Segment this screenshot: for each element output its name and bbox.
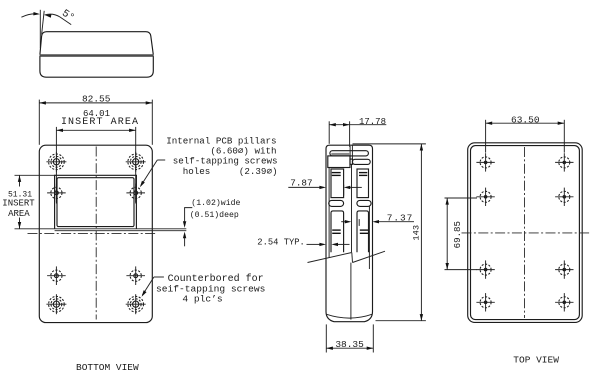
groove bottom line [55,230,187,232]
right inner wall line [368,206,370,270]
svg-text:82.55: 82.55 [82,93,111,104]
svg-text:INSERT AREA: INSERT AREA [61,117,139,128]
vertical centerline [95,147,97,320]
screw hole counterbored top-left [46,152,66,172]
dimension 82.55 line [39,102,152,104]
seam middle line [351,164,353,252]
dimension 51.31 line lower [19,218,21,229]
screw hole counterbored bottom-right [126,294,146,314]
row1 stadium right [357,200,371,206]
dimension 64.01 extension right [135,127,137,204]
seam lower line [350,263,352,320]
draft vertical reference line [39,10,41,48]
pillar row2 right [357,211,369,252]
svg-text:7.37: 7.37 [387,213,413,224]
lid slot stadium [330,151,369,156]
pillar row2 right bars [360,229,369,231]
dimension 64.01 line [56,129,135,131]
top view horizontal centerline [462,232,591,234]
leader to counterbored hole [154,276,164,278]
dimension 64.01 extension left [55,127,57,204]
dimension 143 [353,143,426,145]
row1 stadium left [329,200,344,206]
svg-text:TOP VIEW: TOP VIEW [513,354,559,365]
side view body outline [326,145,373,322]
pillar row2 left [331,211,344,252]
svg-text:BOTTOM VIEW: BOTTOM VIEW [76,362,139,373]
svg-text:38.35: 38.35 [335,339,364,350]
draft edge extension line [42,11,45,35]
lid left block [328,156,350,168]
pillar row1 right rect [357,169,369,198]
svg-text:7.87: 7.87 [290,177,312,188]
svg-text:(1.02)wide: (1.02)wide [191,198,240,208]
screw hole small row2-right [126,184,145,203]
dimension 82.55 extension right [151,100,153,145]
screw hole small row2-left [47,184,66,203]
draft angle right arrowhead [44,13,51,17]
svg-text:4 plc’s: 4 plc’s [182,293,222,304]
svg-text:holes: holes [183,166,211,177]
seam upper left line [349,146,351,159]
pillar row1 left rect [331,169,344,198]
dimension 17.78 [328,121,330,144]
insert top extension line to left [15,174,57,176]
insert area outer rect [55,175,137,229]
lid small center rect [350,159,353,164]
svg-text:17.78: 17.78 [359,117,386,127]
top view body outline [468,143,583,323]
screw hole counterbored top-right [126,152,146,172]
screw hole counterbored bottom-left [46,294,66,314]
pillar row2 left bars [332,229,341,231]
svg-text:63.50: 63.50 [511,114,540,125]
lid right stadium [352,159,370,164]
interior bottom arc [326,314,372,318]
screw hole small row3-left [47,266,66,285]
break line Z [308,253,352,263]
groove top line [15,228,187,230]
svg-text:5°: 5° [59,8,76,25]
svg-text:(2.39∅): (2.39∅) [239,166,278,177]
dimension 51.31 line upper [19,175,21,186]
svg-text:INSERT: INSERT [2,199,35,209]
draft angle left arc leader [21,14,37,17]
dimension 7.37 [341,221,345,223]
dimension 63.50 [485,120,487,153]
left inner wall line [328,168,330,258]
profile parting line [40,54,154,56]
bottom view body outline [39,145,152,322]
lid slot gray bar [331,153,350,155]
dimension 69.85 [445,197,478,199]
svg-text:2.54 TYP.: 2.54 TYP. [257,237,305,247]
svg-text:(0.51)deep: (0.51)deep [190,210,239,220]
svg-text:AREA: AREA [8,209,30,219]
top view inner outline [471,146,580,320]
dimension 82.55 extension left [38,100,40,145]
screw hole small row3-right [126,266,145,285]
dimension 38.35 [325,324,327,352]
svg-text:143: 143 [412,225,422,241]
top view vertical centerline [524,147,526,318]
draft angle right leader [45,14,72,24]
lower arrow for 0.51 deep [184,238,186,246]
pillar row1 left bars [332,172,341,174]
top view holes [476,153,494,171]
insert area inner rect [57,178,134,227]
horizontal centerline [28,233,158,235]
profile base outline [40,56,153,77]
bracket for 0.51 deep [185,208,193,222]
draft angle left arrowhead [33,12,40,16]
pillar row1 right bars [359,172,367,174]
leader to self-tapping hole [157,159,165,161]
svg-text:69.85: 69.85 [452,221,463,248]
seam upper right line [351,145,353,160]
profile lid outline [40,32,153,55]
